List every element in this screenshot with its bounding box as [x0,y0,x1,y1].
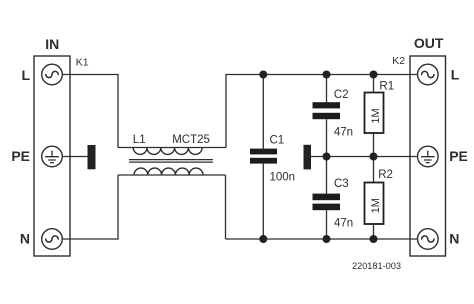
svg-text:47n: 47n [334,217,353,229]
svg-text:C3: C3 [334,178,349,190]
svg-text:L1: L1 [133,134,146,146]
svg-text:K2: K2 [392,55,405,67]
svg-text:R1: R1 [379,80,394,92]
svg-text:C1: C1 [270,135,285,147]
svg-text:N: N [449,231,459,247]
svg-text:220181-003: 220181-003 [352,261,401,271]
svg-text:L: L [451,67,460,83]
svg-text:L: L [21,67,30,83]
svg-text:PE: PE [449,148,468,164]
svg-text:1M: 1M [370,198,382,213]
svg-text:IN: IN [45,36,59,52]
svg-text:47n: 47n [334,126,353,138]
svg-text:N: N [20,231,30,247]
svg-text:PE: PE [11,148,30,164]
svg-text:C2: C2 [334,89,349,101]
svg-text:K1: K1 [76,57,89,69]
svg-text:OUT: OUT [414,35,444,51]
svg-text:100n: 100n [270,171,296,183]
svg-text:R2: R2 [378,169,393,181]
svg-text:1M: 1M [370,108,382,123]
svg-text:MCT25: MCT25 [172,134,210,146]
